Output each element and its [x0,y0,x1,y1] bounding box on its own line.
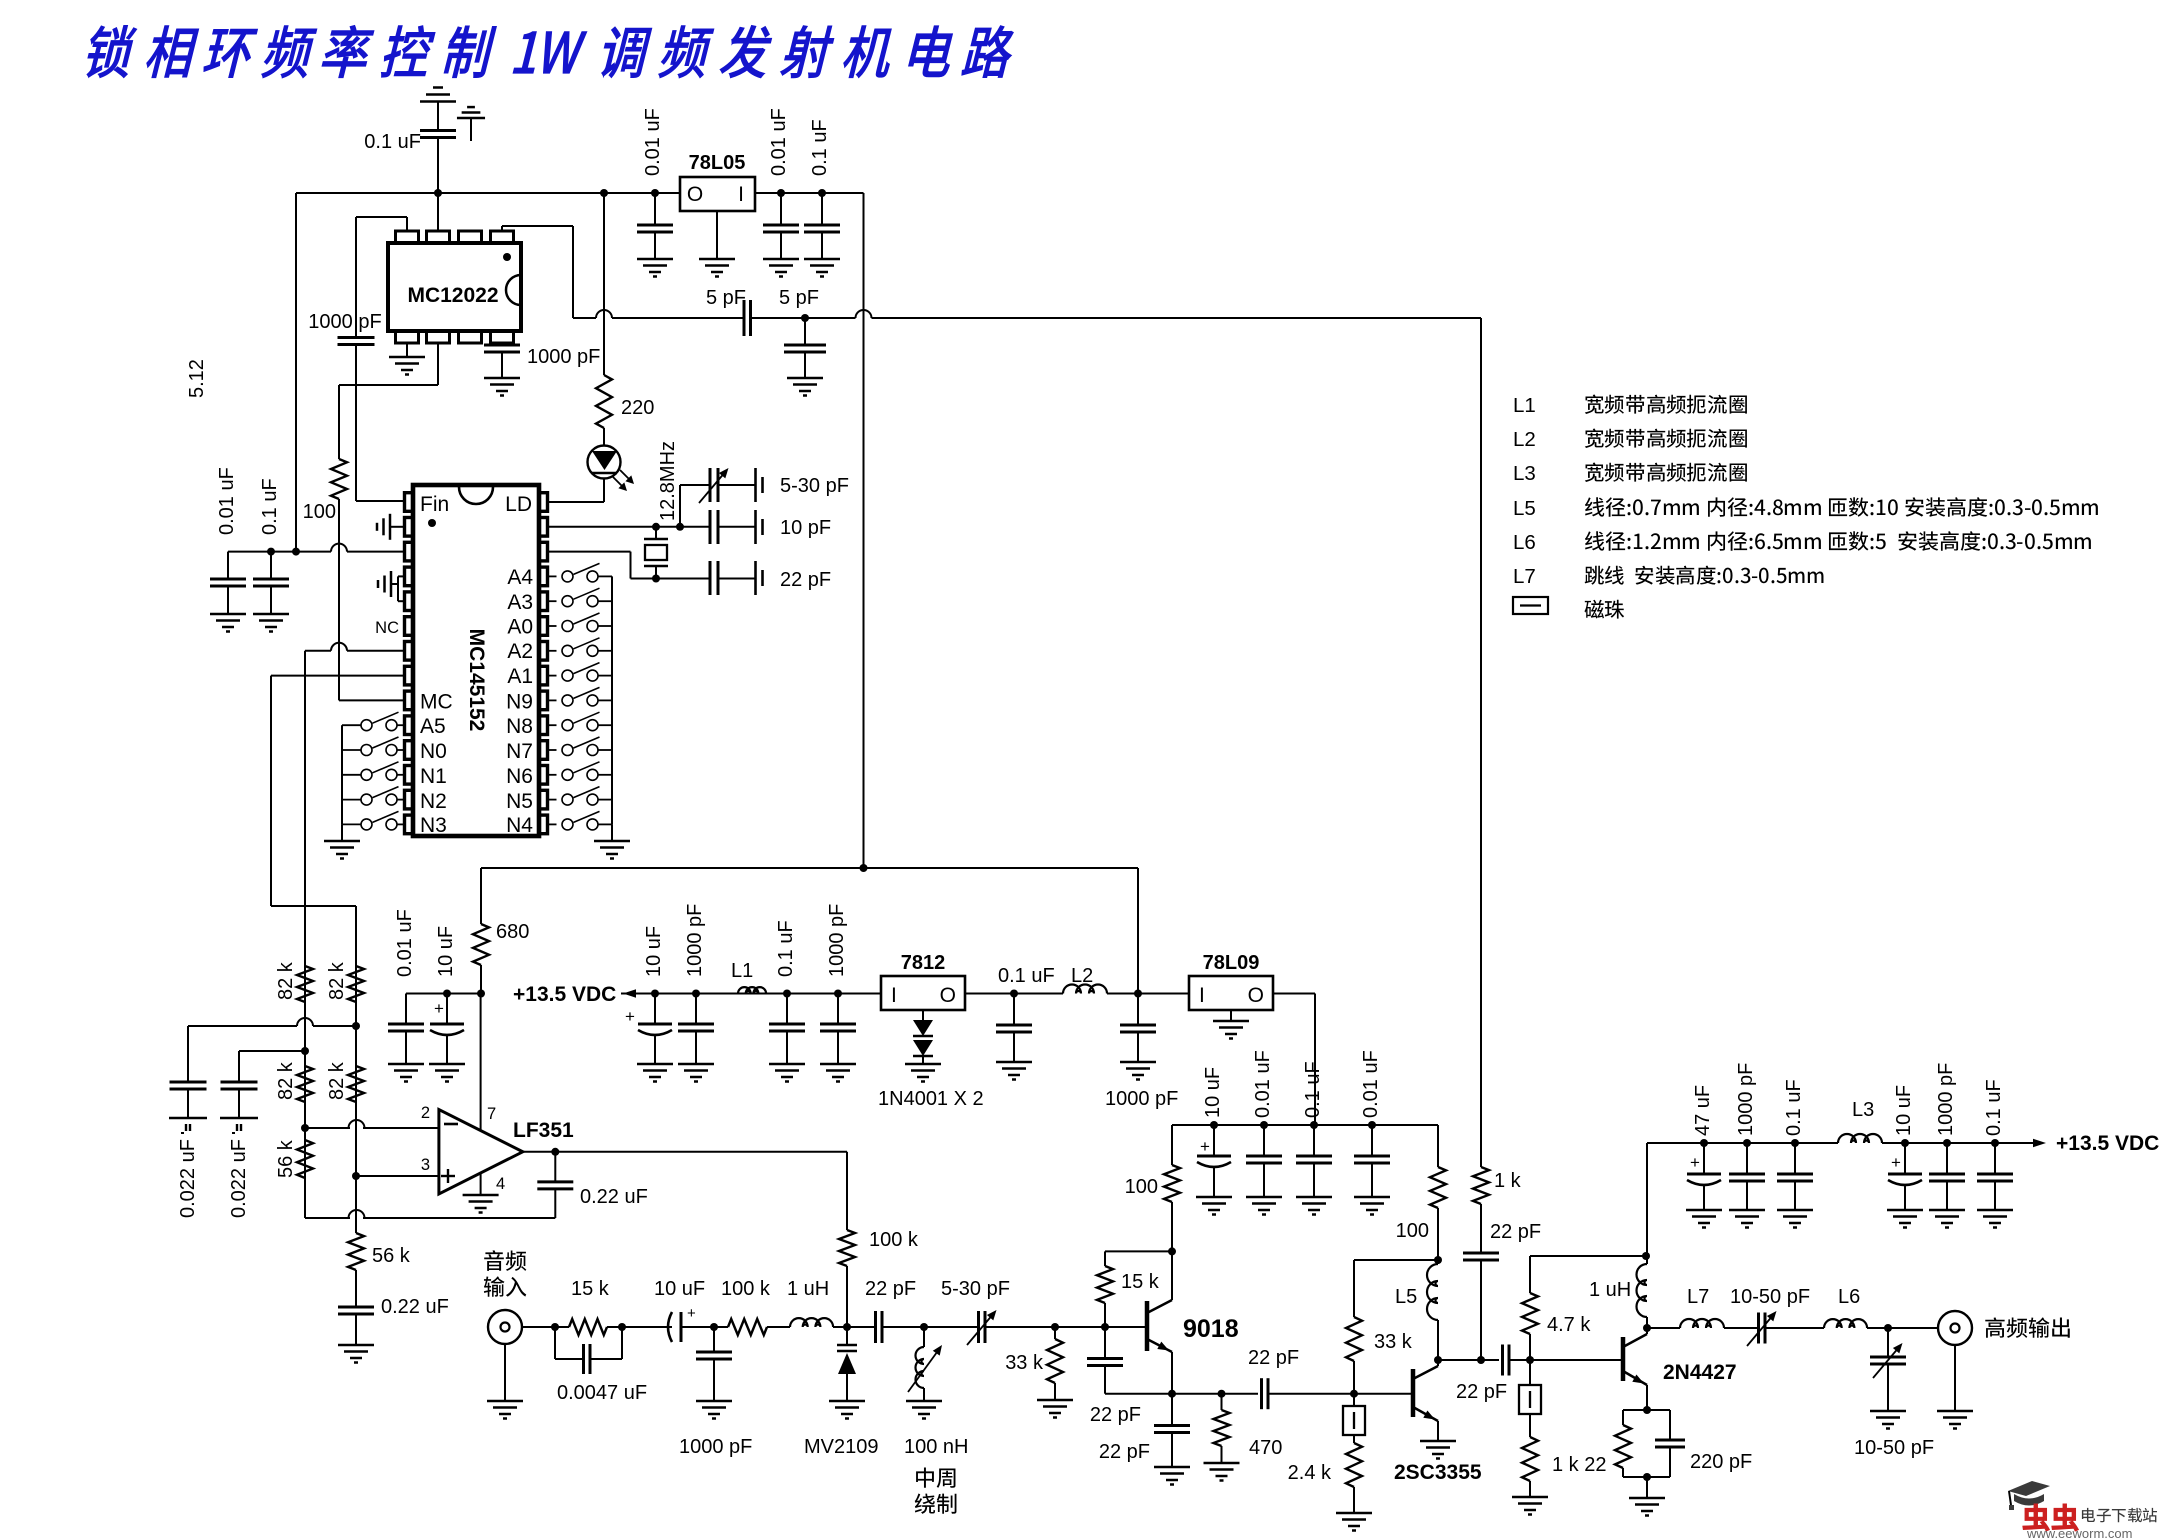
wire right rail drop x=863.5 (to 868 row) [863,193,865,868]
svg-text:100 k: 100 k [869,1229,919,1251]
op-amp U4 LF351 triangle [439,1110,523,1195]
svg-text:+: + [434,999,444,1018]
hop over 220-chain [596,310,612,318]
svg-text:82 k: 82 k [275,1061,297,1100]
svg-text:0.1 uF: 0.1 uF [998,965,1055,987]
ground U2 pin1 [389,356,425,359]
node rail 0.1uF d [1991,1139,1999,1147]
svg-text:1000 pF: 1000 pF [1105,1088,1178,1110]
wire audio seg7 [985,1326,1147,1328]
wire to Q3 base [1509,1359,1623,1361]
resistor 82 k (R1b) [348,966,364,1002]
wire U6 out to 9V rail [1273,993,1315,995]
ground 0.1uF PA2 [1977,1209,2013,1212]
svg-text:470: 470 [1249,1437,1282,1459]
IC U2 D-notch [506,275,521,305]
wire J1 gnd [504,1344,506,1401]
svg-text:82 k: 82 k [326,961,348,1000]
svg-text:0.01 uF: 0.01 uF [768,108,790,176]
node 470 [1218,1390,1226,1398]
svg-text:4.7 k: 4.7 k [1547,1314,1591,1336]
node 680 supply [477,990,485,998]
ground 1k Q3 [1512,1496,1548,1499]
svg-text:1000 pF: 1000 pF [1735,1063,1757,1136]
wire top rail left segment [296,192,680,194]
svg-text:15 k: 15 k [571,1278,610,1300]
node rail junction C 0.1uF b [818,189,826,197]
capacitor C1 0.1 uF (top) [437,138,439,194]
svg-text:7812: 7812 [901,952,946,974]
wire U2 pin2 to rail [437,193,439,231]
svg-text:22 pF: 22 pF [1456,1381,1507,1403]
label U4 minus [444,1123,458,1126]
svg-text:22 pF: 22 pF [865,1278,916,1300]
wire U1 pin7 row [347,650,405,652]
ground 0.1uF 12V [996,1061,1032,1064]
wire rail to R 220 [603,193,605,375]
svg-text:5-30 pF: 5-30 pF [941,1278,1010,1300]
IC U1 pin boxes [405,493,414,512]
label 中周 [916,1467,955,1487]
wire out seg3 [1867,1327,1938,1329]
capacitor 1000 pF (7812 in) [837,994,839,1025]
wire Q3 collector row [1647,1327,1680,1329]
svg-text:N0: N0 [420,740,447,763]
wire audio seg6 [882,1326,979,1328]
svg-text:MV2109: MV2109 [804,1436,879,1458]
svg-text:1000 pF: 1000 pF [679,1436,752,1458]
node audio n2 [618,1323,626,1331]
svg-text:1000 pF: 1000 pF [826,904,848,977]
wire 100k to varactor node [846,1266,848,1327]
svg-text:82 k: 82 k [326,1061,348,1100]
wire U1 pin8 row [271,675,405,677]
capacitor 0.22 uF (fb) [554,1152,556,1182]
ground 10uF PA2 [1887,1209,1923,1212]
node xtal top [652,523,660,531]
node 33k osc [1051,1323,1059,1331]
capacitor 0.01 uF (9V) [1263,1125,1265,1156]
wire 1uH to rail [1646,1143,1648,1256]
wire 10pF row [680,526,710,528]
IC U2 pin boxes [396,231,419,243]
svg-text:10 uF: 10 uF [643,926,665,977]
wire U2 pin4 to 5pF row [501,226,503,231]
svg-text:I: I [1199,984,1205,1007]
wire left rail drop x=296 [295,193,297,551]
ground 0.1 uF ref [253,613,289,616]
ground 0.1uF 9V [1296,1196,1332,1199]
svg-text:100 nH: 100 nH [904,1436,969,1458]
svg-text:220 pF: 220 pF [1690,1451,1752,1473]
wire 13.5 feed [621,993,881,995]
node 0.1uF in [783,990,791,998]
wire 868 row [481,867,864,869]
svg-text:+13.5 VDC: +13.5 VDC [2056,1132,2159,1155]
svg-text:L3: L3 [1852,1099,1874,1121]
node pin3 row [352,1172,360,1180]
resistor 100 k (audio) [728,1319,767,1335]
svg-text:+: + [1200,1137,1210,1156]
op IC U1 MC145152 body [413,485,539,836]
svg-text:1000 pF: 1000 pF [684,904,706,977]
label 音频输入 [484,1250,526,1271]
node varactor [843,1323,851,1331]
resistor 15 k (9018 bias) [1104,1303,1106,1327]
node rail drop join [292,548,300,556]
svg-text:2.4 k: 2.4 k [1288,1462,1332,1484]
wire audio seg3 [681,1326,728,1328]
ground 1000pF audio [696,1400,732,1403]
capacitor 0.1 uF (ref row) [270,552,272,579]
svg-text:NC: NC [375,619,399,637]
inductor 100 nH variable [923,1327,925,1347]
wire 9018 emitter row [1105,1393,1258,1395]
svg-text:1 uH: 1 uH [1589,1279,1631,1301]
capacitor 0.01 uF (ref row) [227,552,229,579]
svg-text:0.1 uF: 0.1 uF [1983,1079,2005,1136]
capacitor 0.0047 uF parallel loop [554,1327,556,1359]
node 10uF in [651,990,659,998]
wire trimmer up [679,485,681,527]
wire Q2 out row [1438,1359,1499,1361]
ground 0.01 op supply [388,1063,424,1066]
capacitor 0.1 uF (PA2) [1994,1143,1996,1174]
ground 47uF [1686,1209,1722,1212]
svg-text:O: O [1248,984,1264,1007]
svg-text:A3: A3 [507,591,533,614]
ground 0.22 uF bias [338,1344,374,1347]
LED D1 lock indicator [588,446,621,479]
ground MV2109 [829,1400,865,1403]
ground U4 pin4 [463,1194,499,1197]
svg-text:O: O [940,984,956,1007]
ground 0.01 uF (78L05 in) [763,258,799,261]
inductor 1 uH (audio) [790,1318,833,1327]
title text 锁相环频率控制1W调频发射机电路 [81,26,139,78]
svg-text:N1: N1 [420,765,447,788]
wire 100 ohm to MC pin [338,499,340,700]
capacitor 0.1 uF (78L05 in) [821,193,823,225]
svg-text:0.0047 uF: 0.0047 uF [557,1382,647,1404]
wire output to 100k [846,1152,848,1230]
svg-text:2N4427: 2N4427 [1663,1361,1737,1384]
ground 1000pF in [678,1063,714,1066]
resistor 1 k (buffer feed) [1473,1167,1489,1204]
svg-text:L7: L7 [1513,565,1536,588]
wire OSCin row [548,526,656,528]
wire R220 to LED [603,428,605,446]
svg-text:22 pF: 22 pF [1490,1221,1541,1243]
wire 5pF row seg1 [573,317,596,319]
svg-text:5-30 pF: 5-30 pF [780,475,849,497]
resistor 82 k (L1a) [297,966,313,1002]
svg-text:L2: L2 [1071,965,1093,987]
node rail junction C 0.01uF b [777,189,785,197]
label 绕制 [915,1493,957,1513]
svg-text:10 uF: 10 uF [1202,1067,1224,1118]
svg-text:680: 680 [496,921,529,943]
svg-text:0.1 uF: 0.1 uF [1783,1079,1805,1136]
svg-text:1 k 22: 1 k 22 [1552,1454,1606,1476]
wire right switch bus [611,576,613,824]
svg-text:1000 pF: 1000 pF [308,311,381,333]
wire out seg1 [1724,1327,1759,1329]
ground 0.1 uF (78L05 in) [804,258,840,261]
ground 10uF 9V [1196,1196,1232,1199]
ground U6 [1213,1020,1249,1023]
svg-text:www.eeworm.com: www.eeworm.com [2026,1526,2132,1539]
capacitor 22 pF (emitter bypass) [1171,1394,1173,1426]
resistor 56 k (La) [297,1140,313,1178]
resistor 2.4 k [1346,1443,1362,1487]
svg-text:L6: L6 [1838,1286,1860,1308]
capacitor 0.01 uF (op supply) [405,994,407,1025]
svg-text:3: 3 [421,1156,430,1174]
node row1026-rightcol [352,1022,360,1030]
resistor 33 k (3355 bias) [1353,1260,1355,1317]
wire U4 pin7 supply [480,994,482,1131]
watermark 虫虫 [2023,1504,2048,1530]
node 868 row x=863.5 [860,864,868,872]
wire L2 to 78L09 [1107,993,1189,995]
node 9V 10uF [1210,1121,1218,1129]
capacitor 10-50 pF (shunt) [1887,1328,1889,1357]
ground diodes [905,1063,941,1066]
svg-text:0.1 uF: 0.1 uF [364,131,421,153]
ground 0.01uF 9V [1246,1196,1282,1199]
diodes D2 D3 1N4001 x2 (7812 gnd lift) [922,1010,924,1020]
capacitor 10 uF coupling (audio) [668,1312,672,1342]
ground 0.01 uF (78L05 out) [637,258,673,261]
resistor 100 (prescaler out) [331,459,347,499]
node Q3 base node [1526,1356,1534,1364]
node 9018 base [1101,1323,1109,1331]
ground J1 [487,1400,523,1403]
wire 680 top [480,868,482,924]
svg-text:10 uF: 10 uF [1893,1085,1915,1136]
resistor 100 k (fb) [839,1230,855,1266]
svg-text:N5: N5 [506,790,533,813]
capacitor 22 pF (9018 base) [1104,1327,1106,1359]
op IC U2 MC12022 body [388,243,521,331]
wire opamp pin2 row [305,1127,350,1129]
ground 10uF op supply [429,1063,465,1066]
svg-text:LF351: LF351 [513,1119,574,1142]
resistor 1 k (Q3 base) [1522,1437,1538,1481]
node 9V 0.01uF b [1368,1121,1376,1129]
capacitor 22 pF (Q2-Q3 couple) [1501,1345,1504,1376]
wire LED to LD pin [603,479,605,503]
wire to trimmer branch [656,526,680,528]
capacitor 1000 pF (PA2) [1946,1143,1948,1174]
node rail 1000pF d [1943,1139,1951,1147]
wire out seg2 [1765,1327,1824,1329]
svg-text:L5: L5 [1513,497,1536,520]
ground top (inverted) at C1 [420,100,456,103]
wire opamp supply rail [406,993,481,995]
svg-text:1000 pF: 1000 pF [1935,1063,1957,1136]
switches U1 right (A4-N4) [548,575,557,577]
resistor 56 k (Rb bottom) [348,1233,364,1270]
svg-text:4: 4 [496,1175,505,1193]
svg-text:L7: L7 [1687,1286,1709,1308]
node rail junction C 0.01uF [651,189,659,197]
node emitter [1168,1390,1176,1398]
svg-text:10-50 pF: 10-50 pF [1854,1437,1934,1459]
wire row 1026 [188,1025,297,1027]
svg-text:N7: N7 [506,740,533,763]
resistor 82 k (R2b) [348,1066,364,1102]
node 9018 collector node [1168,1247,1176,1255]
wire U2 pin1 bottom to ground [406,343,408,357]
node audio n3 [710,1323,718,1331]
svg-text:5 pF: 5 pF [706,287,746,309]
capacitor 5-30 pF trimmer (xtal) [709,468,712,502]
svg-text:47 uF: 47 uF [1692,1085,1714,1136]
wire opamp pin3 row [356,1175,439,1177]
wire interstage [1268,1393,1412,1395]
inductor L7 [1680,1319,1724,1328]
svg-text:5 pF: 5 pF [779,287,819,309]
capacitor 10-50 pF (series) [1757,1313,1760,1344]
ground U2 pin4 cap [484,377,520,380]
capacitor 22 pF (xtal) [709,561,712,595]
switches U1 left (A5,N0-N3) [397,724,405,726]
ground Q3 emitter [1629,1497,1665,1500]
wire audio seg2 [607,1326,672,1328]
node L5 bottom feed [1434,1256,1442,1264]
wire 7812 out [965,993,1063,995]
svg-text:L3: L3 [1513,462,1536,485]
svg-text:N3: N3 [420,814,447,837]
svg-text:0.1 uF: 0.1 uF [259,478,281,535]
watermark 电子下载站 [2082,1508,2157,1522]
node 9V 0.01uF [1260,1121,1268,1129]
svg-text:0.01 uF: 0.01 uF [1360,1050,1382,1118]
svg-text:N9: N9 [506,691,533,714]
svg-text:100 k: 100 k [721,1278,771,1300]
wire U6 gnd [1230,1010,1232,1021]
capacitor 1000 pF (U2 pin4) [501,343,503,345]
resistor 4.7 k [1529,1334,1531,1360]
crystal Y1 12.8MHz [655,527,657,539]
svg-text:0.022 uF: 0.022 uF [177,1139,199,1218]
wire U2 pin2 bottom to 100 ohm [437,343,439,385]
node 5pF shunt junction [801,314,809,322]
emitter network 22 ohm + 220 pF [1643,1406,1651,1414]
wire audio seg4 [767,1326,790,1328]
node U4 output [551,1148,559,1156]
arrow 13.5 feed [623,989,636,997]
IC U1 pin1 dot [428,519,436,527]
svg-text:78L09: 78L09 [1203,952,1260,974]
wire 13.5 rail right [1647,1142,1838,1144]
svg-text:A5: A5 [420,715,446,738]
svg-text:+: + [687,1305,696,1322]
wire 9V rail [1172,1124,1438,1126]
svg-text:56 k: 56 k [275,1139,297,1178]
svg-text:N4: N4 [506,814,533,837]
transistor Q3 2N4427 [1621,1337,1626,1381]
node audio n1 [551,1323,559,1331]
capacitor 10 uF (op supply) [446,994,448,1025]
transistor Q2 2SC3355 [1411,1369,1416,1417]
resistor 100 (L5 feed) [1437,1208,1439,1252]
svg-text:Fin: Fin [420,493,449,516]
ground 5 pF shunt [787,377,823,380]
svg-text:L6: L6 [1513,531,1536,554]
wire OSCout row [548,551,631,553]
IC U1 top notch [459,487,493,504]
node 9V 0.1uF [1310,1121,1318,1129]
node 0.1uF 12V [1010,990,1018,998]
IC U2 pin1 indicator dot [503,253,511,261]
node Q3 collector [1643,1324,1651,1332]
ground 22pF emitter [1154,1466,1190,1469]
svg-text:N2: N2 [420,790,447,813]
node ant shunt [1884,1324,1892,1332]
svg-text:MC: MC [420,691,453,714]
resistor 470 [1221,1394,1223,1410]
node rail 10uF c [1901,1139,1909,1147]
ground Q2 emitter [1420,1440,1456,1443]
resistor 33 k (osc) [1054,1327,1056,1339]
svg-text:2: 2 [421,1104,430,1122]
capacitor 22 pF (buffer) [1480,1204,1482,1253]
transistor Q1 9018 [1145,1301,1150,1351]
inductor L3 [1838,1134,1882,1143]
svg-text:100: 100 [1396,1220,1429,1242]
svg-text:1000 pF: 1000 pF [527,346,600,368]
wire J2 gnd [1954,1345,1956,1411]
connector J1 audio in [488,1310,522,1344]
ground 10-50 shunt [1870,1410,1906,1413]
wire U2 pin1 loop to 1000pF to Fin [406,217,408,231]
svg-text:5.12: 5.12 [186,359,208,398]
svg-text:0.22 uF: 0.22 uF [580,1186,648,1208]
node rail junction 220-chain [600,189,608,197]
wire left switch bus [341,725,343,824]
capacitor 22 pF (audio couple) [874,1311,877,1343]
wire ladder right col [355,966,357,1233]
capacitor 0.1 uF (9V) [1313,1125,1315,1156]
svg-text:L2: L2 [1513,428,1536,451]
wire audio seg1 [522,1326,569,1328]
ground 100nH [906,1400,942,1403]
resistor 82 k (L2a) [297,1066,313,1102]
ground 2.4k [1336,1512,1372,1515]
svg-text:MC145152: MC145152 [465,629,488,732]
inductor 1 uH (collector) [1646,1317,1648,1328]
node buffer join [1477,1356,1485,1364]
capacitor 0.01 uF (9V b) [1371,1125,1373,1156]
ground 0.1uF PA [1777,1209,1813,1212]
svg-text:100: 100 [1125,1176,1158,1198]
wire top rail right segment [755,192,864,194]
node trimmer branch [676,523,684,531]
wire 680 bottom to rail [480,965,482,994]
node 10uF supply [443,990,451,998]
svg-text:I: I [891,984,897,1007]
ground U1 pin4+pin5 (sideways) [398,575,405,577]
svg-text:0.01 uF: 0.01 uF [1252,1050,1274,1118]
svg-text:I: I [738,183,744,206]
inductor L5 [1437,1320,1439,1360]
inductor L1 choke [738,987,766,993]
svg-text:N6: N6 [506,765,533,788]
label 高频输出 [1985,1317,2070,1338]
